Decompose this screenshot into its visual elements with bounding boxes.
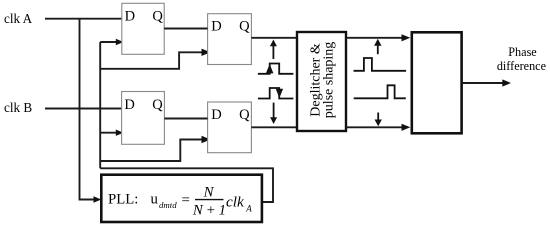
svg-text:Q: Q <box>239 107 250 123</box>
wire PLL output feedback to trunk <box>100 168 273 202</box>
wire U4 Q to deglitcher <box>251 126 297 128</box>
wire clk B to DFF3 D <box>45 108 122 110</box>
svg-text:D: D <box>211 107 221 123</box>
rising edge pulse glyph left <box>258 64 294 74</box>
svg-text:N: N <box>203 184 215 200</box>
wire trunk to DFF2 clock <box>100 52 203 69</box>
wire counter output <box>462 82 505 84</box>
falling edge pulse glyph left <box>258 88 294 99</box>
svg-text:D: D <box>211 18 221 34</box>
svg-text:PLL:: PLL: <box>108 192 138 208</box>
falling edge marker arrow down left <box>273 103 275 118</box>
wire clk A feed down to PLL <box>80 19 97 200</box>
svg-text:=: = <box>182 192 190 208</box>
flip-flop U3 box <box>122 92 165 145</box>
flip-flop U1 box <box>122 3 164 54</box>
flip-flop U4 box <box>208 102 252 153</box>
falling edge marker arrow down right <box>377 113 379 121</box>
PLL equation fraction bar <box>195 199 224 201</box>
wire trunk to DFF4 clock <box>100 140 203 162</box>
svg-text:Q: Q <box>152 97 163 113</box>
svg-text:Phase: Phase <box>508 45 536 59</box>
counter block <box>412 32 462 133</box>
wire clock trunk <box>99 42 101 168</box>
wire U3 Q to U4 D <box>164 118 207 120</box>
flip-flop U2 box <box>208 14 252 65</box>
wire deglitcher to counter bottom <box>346 126 404 128</box>
deglitcher label <box>309 42 337 119</box>
svg-text:clk: clk <box>226 194 244 211</box>
rising edge marker arrow up left <box>272 45 274 59</box>
deglitcher block <box>297 32 346 131</box>
wire U1 Q to U2 D <box>164 28 207 30</box>
svg-text:Q: Q <box>239 18 250 34</box>
svg-text:N + 1: N + 1 <box>192 202 226 218</box>
svg-text:difference: difference <box>497 59 546 73</box>
svg-text:clk A: clk A <box>4 11 33 26</box>
PLL block <box>101 175 262 222</box>
rising edge marker arrow up right <box>377 45 379 55</box>
pulse waveform glyph top right <box>354 58 407 71</box>
svg-text:pulse shaping: pulse shaping <box>321 42 336 119</box>
wire trunk to DFF3 clock <box>100 132 117 134</box>
wire deglitcher to counter top <box>346 37 404 39</box>
svg-text:D: D <box>125 8 135 24</box>
svg-text:D: D <box>124 97 134 113</box>
svg-text:clk B: clk B <box>4 100 32 115</box>
wire U2 Q to deglitcher <box>251 37 297 39</box>
svg-text:A: A <box>245 204 252 214</box>
wire clk A to DFF1 D <box>45 18 122 20</box>
svg-text:u: u <box>151 191 159 207</box>
wire trunk to DFF1 clock <box>100 41 117 43</box>
pulse waveform glyph bottom right <box>354 85 406 98</box>
svg-text:Q: Q <box>152 8 163 24</box>
svg-text:dmtd: dmtd <box>159 200 177 210</box>
